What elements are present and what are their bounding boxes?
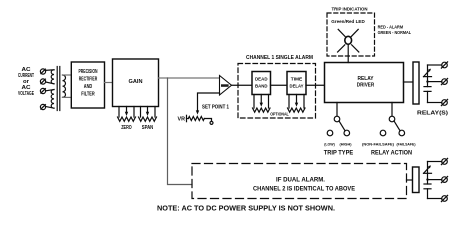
wire comparator output — [232, 84, 253, 86]
relay terminal 2 — [441, 79, 447, 85]
svg-text:RELAY(S): RELAY(S) — [417, 111, 448, 117]
svg-text:DEAD: DEAD — [255, 77, 268, 83]
svg-text:VOLTAGE: VOLTAGE — [18, 91, 34, 97]
svg-text:CHANNEL 2 IS IDENTICAL TO ABOV: CHANNEL 2 IS IDENTICAL TO ABOVE — [253, 186, 355, 193]
svg-text:PRECISION: PRECISION — [79, 69, 98, 75]
relay coil K2 — [413, 167, 420, 193]
svg-text:(LOW): (LOW) — [324, 142, 335, 146]
svg-text:SPAN: SPAN — [142, 125, 154, 131]
channel 1 single alarm dashed box — [238, 55, 316, 118]
svg-text:AND: AND — [84, 84, 93, 90]
svg-text:FILTER: FILTER — [81, 92, 95, 98]
terminal input 1 — [40, 69, 45, 74]
relay terminal 5 — [441, 177, 447, 183]
terminal input 4 — [40, 104, 45, 109]
svg-text:RED - ALARM: RED - ALARM — [378, 24, 404, 29]
relay contacts K2 — [424, 162, 442, 199]
wire time delay to relay driver — [306, 84, 325, 86]
block gain amplifier — [113, 59, 159, 107]
relay terminal 3 — [441, 99, 447, 105]
node AC input labels — [18, 67, 34, 97]
svg-text:(HIGH): (HIGH) — [340, 142, 353, 146]
wire t2 to primary1 bottom — [46, 82, 54, 84]
svg-text:CHANNEL 1 SINGLE ALARM: CHANNEL 1 SINGLE ALARM — [246, 55, 313, 61]
svg-text:TRIP TYPE: TRIP TYPE — [324, 150, 354, 157]
wire gain to comparator — [159, 77, 220, 79]
svg-text:GAIN: GAIN — [129, 79, 143, 85]
trip indication dashed box — [327, 7, 375, 56]
svg-text:IF DUAL ALARM.: IF DUAL ALARM. — [276, 176, 325, 183]
svg-text:RECTIFIER: RECTIFIER — [79, 77, 98, 83]
block time delay — [287, 72, 306, 95]
switch trip type — [324, 103, 354, 157]
svg-text:TRIP INDICATION: TRIP INDICATION — [332, 7, 369, 12]
potentiometer under dead band — [253, 95, 271, 113]
wire rectifier to gain — [105, 82, 113, 84]
relay terminal 1 — [441, 62, 447, 68]
wire t1 to primary1 top — [45, 69, 54, 72]
svg-text:DRIVER: DRIVER — [357, 83, 375, 89]
relay contacts K1 — [424, 65, 442, 103]
dual alarm dashed box — [192, 164, 407, 199]
svg-text:(FAILSAFE): (FAILSAFE) — [397, 142, 417, 146]
svg-text:VR: VR — [178, 117, 186, 123]
svg-text:TIME: TIME — [291, 77, 303, 83]
potentiometer under time delay — [288, 95, 306, 113]
svg-text:NOTE: AC TO DC POWER SUPPLY IS: NOTE: AC TO DC POWER SUPPLY IS NOT SHOWN… — [157, 203, 335, 212]
block dead band — [252, 72, 271, 95]
block precision rectifier and filter — [71, 62, 104, 108]
wire t4 to primary2 bottom — [45, 106, 54, 108]
svg-text:SET POINT 1: SET POINT 1 — [202, 105, 229, 111]
LED indicator — [338, 29, 359, 52]
svg-text:RELAY: RELAY — [358, 76, 375, 82]
wire secondary bottom to rectifier — [63, 96, 72, 98]
relay terminal 6 — [441, 195, 447, 201]
terminal input 3 — [40, 88, 45, 93]
wire relay driver to relay coil — [404, 81, 414, 83]
relay coil K1 — [413, 62, 419, 104]
terminal input 2 — [40, 79, 45, 84]
svg-text:(NON-FAILSAFE): (NON-FAILSAFE) — [362, 142, 395, 146]
svg-text:Green/Red LED: Green/Red LED — [331, 19, 365, 25]
switch relay action — [362, 103, 416, 157]
transformer T1 primary winding 2 — [51, 90, 54, 109]
potentiometer VR set point 1 — [178, 105, 230, 125]
wire t3 to primary2 top — [46, 90, 54, 91]
wire dead band to time delay — [271, 84, 288, 86]
svg-text:OPTIONAL: OPTIONAL — [270, 112, 289, 117]
comparator U1 — [220, 76, 232, 96]
svg-text:DELAY: DELAY — [290, 84, 305, 90]
relay terminal 4 — [441, 158, 447, 164]
svg-text:BAND: BAND — [255, 84, 268, 90]
wire secondary top to rectifier — [63, 74, 72, 76]
wire tap to dual alarm channel — [168, 78, 193, 185]
wire set point to comparator input — [198, 93, 220, 111]
transformer T1 secondary winding — [63, 75, 66, 97]
svg-text:RELAY ACTION: RELAY ACTION — [371, 150, 412, 157]
svg-text:GREEN - NORMAL: GREEN - NORMAL — [378, 30, 412, 35]
wire dual alarm to relay coil K2 — [407, 179, 413, 181]
wire LED to relay driver — [347, 44, 349, 62]
block relay driver — [325, 63, 404, 103]
potentiometer ZERO — [118, 107, 136, 132]
transformer T1 primary winding 1 — [51, 70, 54, 84]
potentiometer SPAN — [139, 107, 157, 132]
transformer T1 core — [56, 67, 58, 111]
legend red alarm green normal — [378, 24, 412, 35]
svg-text:ZERO: ZERO — [121, 125, 132, 131]
